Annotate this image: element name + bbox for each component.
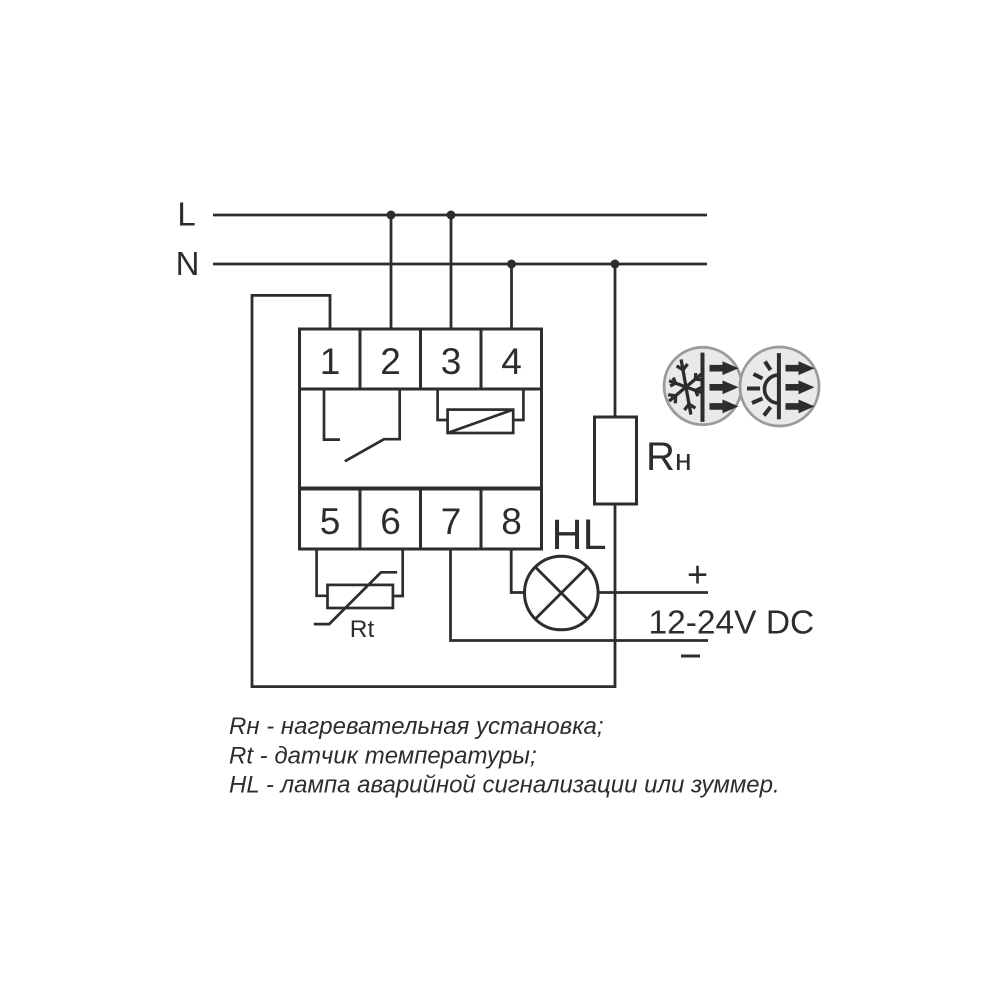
relay coil lead left from pin 3 [438,389,448,420]
svg-text:1: 1 [320,341,341,382]
relay body box [300,389,542,488]
svg-text:8: 8 [501,501,522,542]
resistor Rh body [595,417,637,504]
svg-text:Rн: Rн [646,435,692,479]
icon sun half-disc [765,375,779,403]
thermistor Rt diagonal stroke [314,572,397,624]
wire terminal 8 to lamp [511,548,524,593]
relay coil lead right to pin 4 [513,389,523,420]
svg-text:HL: HL [552,511,607,559]
icon frost vertical bar [701,353,705,422]
icon sun arrows [786,361,815,413]
icon frost arrows [710,361,739,413]
svg-text:5: 5 [320,501,341,542]
lamp HL circle [525,556,599,630]
svg-text:Rн - нагревательная установка;: Rн - нагревательная установка; [229,713,604,740]
svg-text:+: + [687,554,708,595]
svg-text:7: 7 [441,501,462,542]
svg-text:6: 6 [380,501,401,542]
terminal divider 1|2 [359,329,362,389]
node L-2 junction [387,211,396,220]
terminal divider 6|7 [419,489,422,549]
relay coil box [448,410,514,433]
wire terminal 1 to Rh bottom (left loop) [252,295,615,686]
wire terminal 7 to minus rail [451,548,709,641]
terminal row 1-4 outline [300,329,542,389]
icon sun circle [740,347,819,426]
node N-Rh junction [611,260,620,269]
wire lamp to plus rail [598,591,708,594]
svg-text:Rt - датчик температуры;: Rt - датчик температуры; [229,743,537,770]
thermistor Rt lead to pin 6 [393,548,403,596]
icon frost snowflake [668,359,701,414]
svg-text:HL - лампа аварийной сигнализа: HL - лампа аварийной сигнализации или зу… [229,772,780,799]
icon sun rays [747,362,771,416]
svg-text:3: 3 [441,341,462,382]
node N-4 junction [507,260,516,269]
svg-text:4: 4 [501,341,522,382]
relay contact fixed lead from pin 1 [324,389,340,440]
thermistor Rt lead from pin 5 [317,548,328,596]
icon sun vertical bar [777,353,781,419]
svg-text:Rt: Rt [350,616,375,643]
terminal row 5-8 outline [300,489,542,549]
wire N to Rh [614,264,617,417]
lamp HL cross [535,567,587,619]
supply minus label [681,655,700,658]
relay coil diagonal [448,410,514,433]
wire L line [213,214,707,217]
svg-text:L: L [177,196,195,233]
wire N line [213,263,707,266]
relay contact moving arm from pin 2 [345,389,400,461]
node L-3 junction [447,211,456,220]
thermistor Rt body [328,585,393,608]
svg-text:2: 2 [380,341,401,382]
terminal divider 2|3 [419,329,422,389]
terminal divider 5|6 [359,489,362,549]
icon frost circle [664,347,741,424]
wire L to terminal 3 [450,215,453,330]
wire N to terminal 4 [510,264,513,330]
wire L to terminal 2 [390,215,393,330]
terminal divider 7|8 [480,489,483,549]
svg-text:N: N [176,245,200,282]
svg-text:12-24V DC: 12-24V DC [649,605,815,642]
terminal divider 3|4 [480,329,483,389]
